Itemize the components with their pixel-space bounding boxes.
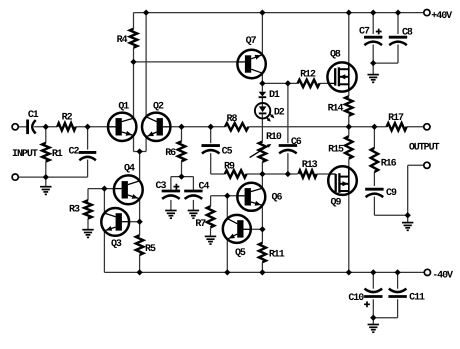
svg-text:C2: C2 <box>69 147 80 158</box>
wire R1 bottom <box>45 162 47 178</box>
wire R7 top corner to Q6 base <box>210 196 212 206</box>
wire R3 corner to Q4 base <box>88 188 114 190</box>
wire R1 top <box>45 127 47 143</box>
ground C7/C8 <box>368 74 379 76</box>
svg-text:C5: C5 <box>222 147 233 158</box>
junction C10 / C11 ground <box>370 315 376 321</box>
terminal +40V <box>424 10 430 16</box>
svg-text:Q7: Q7 <box>246 36 257 47</box>
svg-text:OUTPUT: OUTPUT <box>409 142 440 153</box>
resistor R11 <box>259 243 285 262</box>
svg-text:C8: C8 <box>402 27 413 38</box>
junction bottom rail / C11 <box>394 269 400 275</box>
ground C3 <box>165 210 176 212</box>
resistor R3 <box>69 200 92 218</box>
wire Q3 collector up to Q4 base node <box>103 189 105 214</box>
junction Q4 base / Q3 collector <box>101 185 107 191</box>
wire R14 to R15 output node <box>348 116 350 136</box>
wire R9 to bias node <box>247 173 298 175</box>
svg-text:D2: D2 <box>274 108 285 119</box>
wire input terminal to C1 <box>18 126 26 128</box>
svg-text:R10: R10 <box>266 132 282 143</box>
terminal -40V <box>424 269 430 275</box>
MOSFET Q9 <box>328 166 357 208</box>
svg-text:C4: C4 <box>199 182 210 193</box>
svg-text:R14: R14 <box>328 104 344 115</box>
junction R10 / R9 bias rail <box>259 171 265 177</box>
wire R7 bottom to ground <box>210 227 212 236</box>
transistor Q6 <box>237 183 282 211</box>
wire C11 top <box>397 272 399 288</box>
wire R15 to Q9 drain <box>348 159 350 168</box>
wire C8 bottom corner <box>397 45 399 64</box>
junction C6 / R13 <box>285 171 291 177</box>
LED D2 <box>255 103 285 122</box>
svg-text:Q5: Q5 <box>235 248 246 259</box>
wire lower output terminal leg <box>407 165 409 215</box>
resistor R1 <box>42 143 63 162</box>
wire down to C3 <box>170 177 172 190</box>
resistor R15 <box>328 136 352 158</box>
wire C6 top from gate drive node <box>287 83 289 143</box>
junction Q6 base / Q5 collector <box>224 193 230 199</box>
svg-text:C6: C6 <box>291 137 302 148</box>
input terminal lower <box>12 174 18 180</box>
diode D1 <box>259 90 280 101</box>
wire lower input terminal to C2 ground return <box>18 176 87 178</box>
wire R4 bottom to Q1 collector bus <box>133 48 135 152</box>
junction Q5 base / R11 <box>259 226 265 232</box>
wire R16 bottom to C9 <box>373 172 375 186</box>
MOSFET Q8 <box>327 50 356 92</box>
svg-text:C3: C3 <box>156 181 167 192</box>
ground R7 <box>205 235 216 237</box>
junction bottom rail / Q5 emitter <box>224 269 230 275</box>
svg-text:R7: R7 <box>195 219 206 230</box>
wire R17 to output terminal <box>407 126 424 128</box>
junction feedback line / C5 <box>208 124 214 130</box>
svg-text:R12: R12 <box>300 69 316 80</box>
ground C4 <box>188 210 199 212</box>
svg-text:R13: R13 <box>302 160 318 171</box>
svg-text:INPUT: INPUT <box>12 149 38 160</box>
wire C10 top <box>372 272 374 288</box>
svg-text:R2: R2 <box>62 113 73 124</box>
resistor R17 <box>387 113 407 131</box>
capacitor C5 <box>202 146 233 158</box>
resistor R12 <box>298 69 320 87</box>
svg-text:R15: R15 <box>328 144 344 155</box>
resistor R7 <box>195 206 214 230</box>
ground R3 <box>82 229 93 231</box>
svg-text:R3: R3 <box>69 205 80 216</box>
capacitor C8 <box>389 27 413 45</box>
resistor R2 <box>57 113 75 131</box>
junction bottom rail / R5 <box>136 269 142 275</box>
wire R4 branch upper <box>133 13 135 29</box>
svg-text:C9: C9 <box>386 188 397 199</box>
capacitor C6 <box>279 137 302 153</box>
svg-text:C10: C10 <box>348 293 364 304</box>
svg-text:Q6: Q6 <box>272 193 283 204</box>
svg-text:Q1: Q1 <box>118 101 129 112</box>
wire C11 bottom corner <box>397 299 399 318</box>
wire +40V top rail <box>134 12 424 14</box>
wire C3/C4 tee <box>171 176 194 178</box>
resistor R6 <box>165 141 185 161</box>
svg-text:R9: R9 <box>224 162 235 173</box>
wire Q5 base to bias bus <box>251 228 263 230</box>
wire Q9 source to negative rail <box>348 193 350 272</box>
wire D2 to R10 <box>261 114 263 141</box>
capacitor C9 <box>365 188 397 199</box>
wire C2 bottom leg <box>87 160 89 178</box>
junction top rail / C8 <box>395 9 401 15</box>
transistor Q2 <box>142 101 170 141</box>
svg-text:D1: D1 <box>269 90 280 101</box>
wire C9 ground stub <box>407 215 409 222</box>
wire C6 bottom to bias rail <box>287 153 289 174</box>
wire C9 bottom to ground node <box>373 197 375 216</box>
svg-text:Q9: Q9 <box>331 197 342 208</box>
wire C3 to ground <box>170 200 172 210</box>
ground C10/C11 <box>368 324 379 326</box>
wire C10/C11 ground stub <box>372 318 374 325</box>
capacitor C1 <box>28 110 39 134</box>
wire R12 to Q8 gate <box>320 82 330 84</box>
wire R6 top <box>181 127 183 142</box>
wire down to C4 <box>192 177 194 190</box>
wire Q7 emitter to +40V rail <box>261 13 263 55</box>
wire D1 to D2 <box>261 98 263 107</box>
wire R3 top <box>87 189 89 201</box>
junction top rail / Q2 bus <box>143 9 149 15</box>
junction C9 / output ground <box>405 212 411 218</box>
svg-text:C1: C1 <box>28 110 39 121</box>
svg-text:R17: R17 <box>388 113 404 124</box>
junction top rail / C7 <box>370 9 376 15</box>
junction R2 / C2 / Q1 base <box>84 124 90 130</box>
wire R13 to Q9 gate <box>317 173 330 175</box>
transistor Q4 <box>114 164 143 205</box>
junction R4 / Q7 base <box>130 59 136 65</box>
input terminal upper <box>12 124 18 130</box>
wire Q3 base to tail node <box>129 221 140 223</box>
junction R14 / R15 / output <box>346 124 352 130</box>
ground input <box>40 186 51 188</box>
transistor Q3 <box>101 208 129 250</box>
wire R11 bottom to negative rail <box>261 262 263 272</box>
terminal output lower <box>424 162 430 168</box>
junction top rail / Q8 drain <box>346 9 352 15</box>
wire Q2 base feedback line to R8 <box>170 126 225 128</box>
wire C1 to R2 with R1 tap <box>34 126 57 128</box>
svg-text:R6: R6 <box>165 148 176 159</box>
transistor Q1 <box>108 101 136 141</box>
capacitor C7 <box>359 27 382 45</box>
capacitor C2 <box>69 147 97 161</box>
wire Q3 emitter leg to rail corner <box>103 231 105 273</box>
wire Q7 base from R4 node <box>134 61 238 63</box>
wire Q5 emitter down to negative rail <box>226 239 228 272</box>
junction input return / ground <box>43 174 49 180</box>
junction feedback line / R6 <box>178 124 184 130</box>
svg-text:R5: R5 <box>145 244 156 255</box>
terminal output upper <box>424 124 430 130</box>
svg-text:Q3: Q3 <box>111 239 122 250</box>
svg-text:C7: C7 <box>359 27 370 38</box>
resistor R9 <box>224 162 246 178</box>
capacitor C4 <box>184 182 209 199</box>
wire Q7 collector to D1 node <box>261 73 263 92</box>
svg-text:R4: R4 <box>117 35 128 46</box>
wire R5 bottom to negative rail <box>139 255 141 273</box>
junction C1 / R1 / R2 <box>43 124 49 130</box>
svg-text:Q2: Q2 <box>153 101 164 112</box>
junction bottom rail / C10 <box>370 269 376 275</box>
wire R8 to feedback node at R14/R15 <box>248 126 386 128</box>
wire Q1-Q2 emitter join <box>134 151 147 153</box>
resistor R16 <box>371 148 397 172</box>
wire Q8 source to R14 <box>348 90 350 96</box>
resistor R4 <box>117 29 138 48</box>
wire C10 bottom to ground dot <box>372 299 374 318</box>
junction bottom rail / Q9 source <box>346 269 352 275</box>
wire R3 bottom to ground <box>87 219 89 230</box>
capacitor C10 <box>348 289 382 308</box>
transistor Q5 <box>223 215 251 259</box>
svg-text:R16: R16 <box>381 158 397 169</box>
svg-text:Q4: Q4 <box>124 164 135 175</box>
junction Q7 collector / D1 / R12 <box>259 80 265 86</box>
wire C2 top from R2 node <box>87 127 89 150</box>
wire C7 bottom to ground dot <box>372 45 374 64</box>
resistor R8 <box>225 114 248 131</box>
wire tail down to Q4 and R5 <box>139 152 141 236</box>
resistor R5 <box>136 235 156 255</box>
wire Q5 collector up to Q6 base node <box>226 196 228 219</box>
wire C7/C8 ground stub <box>372 63 374 74</box>
wire C5 bottom corner to R9 <box>210 153 212 174</box>
svg-text:-40V: -40V <box>432 271 453 282</box>
trimmer R10 <box>250 132 282 162</box>
junction Q4 emitter / Q3 base / R5 <box>136 219 142 225</box>
junction bottom rail / R11 <box>259 269 265 275</box>
wire C7 top <box>372 13 374 34</box>
junction output / R16 <box>371 124 377 130</box>
transistor Q7 <box>237 36 265 78</box>
wire Q2 collector bus <box>145 13 147 152</box>
wire C8 top <box>397 13 399 34</box>
wire R16 top <box>373 127 375 148</box>
wire R10 bottom to bias rail <box>261 162 263 174</box>
wire R2 to C2 node and Q1 base <box>76 126 108 128</box>
resistor R14 <box>328 96 353 116</box>
junction C7 / C8 ground <box>370 60 376 66</box>
wire R6 bottom to C3/C4 node <box>181 161 183 176</box>
junction Q1-Q2 emitters / tail <box>136 148 142 154</box>
junction R12 / C6 <box>285 80 291 86</box>
ground C9/output <box>402 222 413 224</box>
svg-text:+40V: +40V <box>431 11 452 22</box>
capacitor C11 <box>388 289 425 304</box>
wire C4 to ground <box>192 200 194 210</box>
wire Q8 drain to +40V rail <box>348 13 350 65</box>
wire bias node down through Q6 to Q5 base node and R11 <box>261 174 263 243</box>
capacitor C3 <box>156 181 181 199</box>
svg-text:R1: R1 <box>52 149 63 160</box>
junction top rail / Q7 emitter <box>259 9 265 15</box>
wire gate drive node to R12 <box>262 82 297 84</box>
svg-text:R11: R11 <box>269 250 285 261</box>
svg-text:Q8: Q8 <box>330 50 341 61</box>
svg-text:C11: C11 <box>409 293 425 304</box>
wire input ground stub <box>45 177 47 187</box>
wire C5 top from feedback line <box>210 127 212 143</box>
junction R6 / C3 / C4 <box>178 173 184 179</box>
svg-text:R8: R8 <box>227 114 238 125</box>
wire -40V bottom rail <box>104 271 424 273</box>
resistor R13 <box>298 160 317 178</box>
